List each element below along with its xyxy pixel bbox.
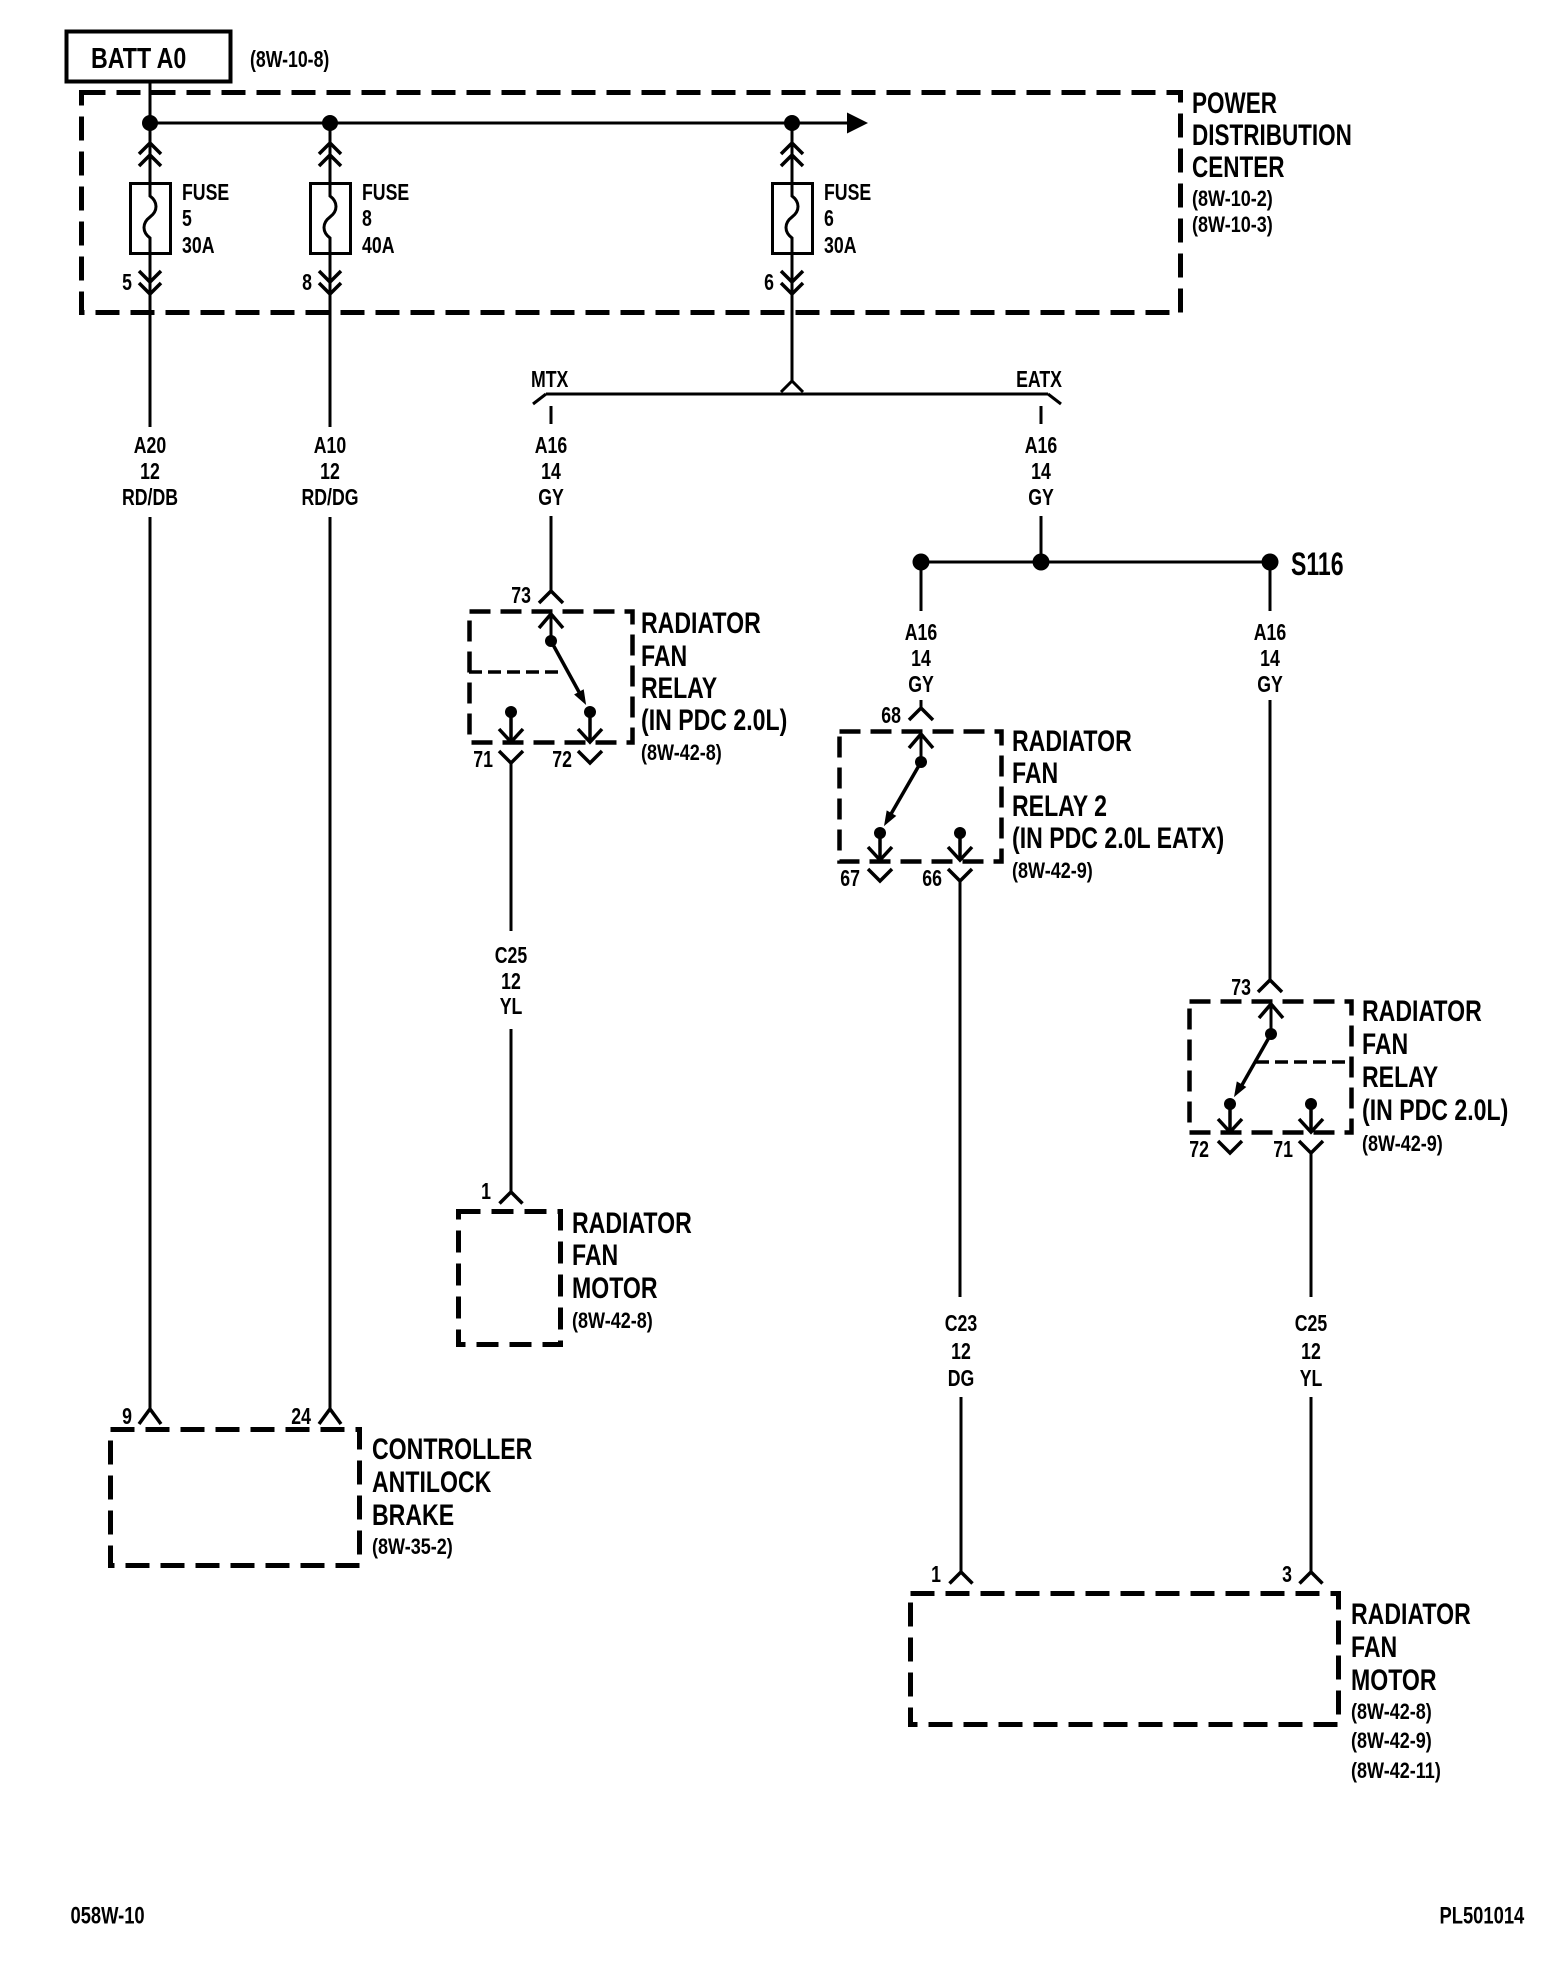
- wire C23 continued: [960, 1397, 963, 1572]
- svg-text:30A: 30A: [182, 233, 215, 259]
- svg-text:FAN: FAN: [572, 1238, 618, 1272]
- svg-text:12: 12: [501, 969, 521, 995]
- svg-text:RADIATOR: RADIATOR: [1362, 994, 1482, 1028]
- svg-text:(8W-42-9): (8W-42-9): [1012, 859, 1093, 883]
- connector pin 3 fan motor 2: [1300, 1572, 1323, 1584]
- svg-text:A10: A10: [314, 433, 346, 459]
- relay 1 contact dot 72: [584, 706, 596, 718]
- radiator fan motor 2 dashed box: [911, 1594, 1339, 1725]
- wire C25 right continued: [1310, 1397, 1313, 1572]
- relay 3 contact dot 71: [1305, 1098, 1317, 1110]
- wire fuse to PDC edge: [329, 253, 332, 313]
- wire fuse 6 down: [791, 313, 794, 381]
- relay 2 contact dot 66: [954, 827, 966, 839]
- connector 67: [868, 869, 892, 881]
- pin 8 connector chevrons: [319, 271, 341, 282]
- contact 71 arrow: [1309, 1104, 1313, 1130]
- pin 6 connector chevrons: [781, 271, 803, 282]
- svg-text:C25: C25: [1295, 1311, 1327, 1337]
- svg-text:GY: GY: [1257, 672, 1283, 698]
- svg-text:14: 14: [541, 459, 561, 485]
- splice dot S116: [1262, 554, 1279, 571]
- svg-text:ANTILOCK: ANTILOCK: [372, 1465, 492, 1499]
- splice S116 bar: [921, 561, 1270, 564]
- svg-text:8: 8: [302, 270, 312, 296]
- svg-text:14: 14: [1031, 459, 1051, 485]
- wire MTX branch: [550, 516, 553, 591]
- svg-text:A16: A16: [535, 433, 567, 459]
- junction dot: [142, 115, 158, 131]
- svg-text:8: 8: [362, 206, 372, 232]
- battery feed box BATT A0: [67, 32, 231, 82]
- fuse 5 element: [144, 184, 156, 253]
- wire C25 from relay 3 pin 71: [1310, 1153, 1313, 1297]
- connector pin 73 relay 1: [539, 591, 563, 603]
- svg-text:POWER: POWER: [1192, 86, 1277, 120]
- bus wire B+: [150, 122, 848, 125]
- svg-text:40A: 40A: [362, 233, 395, 259]
- relay 3 contact dot 72: [1224, 1098, 1236, 1110]
- contact 72 arrow: [1228, 1104, 1232, 1130]
- svg-text:71: 71: [1273, 1137, 1293, 1163]
- svg-text:24: 24: [291, 1404, 311, 1430]
- fuse 6 box: [773, 184, 813, 254]
- svg-text:FAN: FAN: [1362, 1027, 1408, 1061]
- contact 67 arrow: [878, 833, 882, 858]
- svg-text:GY: GY: [908, 672, 934, 698]
- relay 1 contact dot 71: [505, 706, 517, 718]
- connector chevrons: [139, 143, 161, 154]
- svg-text:(8W-10-8): (8W-10-8): [250, 47, 329, 73]
- connector 72: [578, 751, 602, 763]
- svg-text:(IN PDC 2.0L): (IN PDC 2.0L): [641, 703, 787, 737]
- EATX hook: [1048, 394, 1061, 404]
- connector chevrons: [781, 143, 803, 154]
- svg-text:RADIATOR: RADIATOR: [1351, 1597, 1471, 1631]
- svg-text:S116: S116: [1291, 546, 1344, 582]
- radiator fan relay (K3) dashed box: [1190, 1002, 1352, 1133]
- wire A20 continued: [149, 517, 152, 1409]
- svg-text:1: 1: [931, 1562, 941, 1588]
- branch split caret: [781, 381, 803, 392]
- svg-text:5: 5: [182, 206, 192, 232]
- wire to relay 2 continued: [920, 700, 923, 708]
- svg-text:(8W-10-3): (8W-10-3): [1192, 213, 1273, 237]
- connector pin 1 fan motor 2: [950, 1572, 973, 1584]
- connector pin 9: [139, 1409, 161, 1424]
- wire EATX branch: [1040, 516, 1043, 554]
- svg-text:CONTROLLER: CONTROLLER: [372, 1432, 532, 1466]
- svg-text:GY: GY: [1028, 485, 1054, 511]
- svg-text:FUSE: FUSE: [824, 180, 871, 206]
- svg-text:6: 6: [764, 270, 774, 296]
- connector 72: [1218, 1141, 1242, 1153]
- svg-text:(IN PDC 2.0L): (IN PDC 2.0L): [1362, 1093, 1508, 1127]
- svg-text:30A: 30A: [824, 233, 857, 259]
- wire bus to fuse 6: [791, 123, 794, 184]
- svg-text:72: 72: [552, 747, 572, 773]
- controller antilock brake dashed box: [111, 1430, 360, 1566]
- svg-text:C23: C23: [945, 1311, 977, 1337]
- contact 72 arrow: [588, 712, 592, 740]
- svg-text:FUSE: FUSE: [362, 180, 409, 206]
- svg-text:DG: DG: [948, 1366, 975, 1392]
- wire fuse to PDC edge: [149, 253, 152, 313]
- wire to relay 3: [1269, 700, 1272, 980]
- connector pin 68: [909, 708, 933, 720]
- relay 1 input arrow: [539, 614, 563, 628]
- svg-text:(8W-42-9): (8W-42-9): [1362, 1132, 1443, 1156]
- wire bus to fuse 8: [329, 123, 332, 184]
- wire A10 continued: [329, 517, 332, 1409]
- svg-text:3: 3: [1282, 1562, 1292, 1588]
- fuse 8 element: [324, 184, 336, 253]
- wire C25 from relay 1 pin 71: [510, 763, 513, 931]
- splice dot: [913, 554, 930, 571]
- svg-text:FUSE: FUSE: [182, 180, 229, 206]
- svg-text:RD/DB: RD/DB: [122, 485, 178, 511]
- svg-text:14: 14: [911, 646, 931, 672]
- wire bus to fuse 5: [149, 123, 152, 184]
- junction dot: [784, 115, 800, 131]
- svg-text:73: 73: [1231, 975, 1251, 1001]
- svg-text:RD/DG: RD/DG: [301, 485, 358, 511]
- svg-text:72: 72: [1189, 1137, 1209, 1163]
- relay 3 switch arm: [1242, 1034, 1271, 1085]
- relay 3 inner dashed line: [1256, 1060, 1351, 1064]
- pin 5 connector chevrons: [139, 271, 161, 282]
- svg-text:(8W-35-2): (8W-35-2): [372, 1535, 453, 1559]
- wire C25 continued: [510, 1029, 513, 1192]
- svg-text:C25: C25: [495, 943, 527, 969]
- svg-text:9: 9: [122, 1404, 132, 1430]
- MTX hook: [533, 394, 546, 404]
- radiator fan relay (K1) dashed box: [470, 612, 633, 743]
- svg-text:CENTER: CENTER: [1192, 150, 1284, 184]
- svg-text:5: 5: [122, 270, 132, 296]
- svg-text:A16: A16: [1254, 620, 1286, 646]
- svg-text:(8W-10-2): (8W-10-2): [1192, 187, 1273, 211]
- svg-text:GY: GY: [538, 485, 564, 511]
- svg-text:68: 68: [881, 703, 901, 729]
- svg-text:(8W-42-11): (8W-42-11): [1351, 1759, 1441, 1783]
- radiator fan motor dashed box: [459, 1212, 561, 1345]
- svg-text:RADIATOR: RADIATOR: [641, 606, 761, 640]
- wire A10: [329, 313, 332, 427]
- svg-text:1: 1: [481, 1179, 491, 1205]
- wire A20: [149, 313, 152, 427]
- svg-text:MOTOR: MOTOR: [572, 1271, 658, 1305]
- connector 71: [499, 751, 523, 763]
- svg-text:73: 73: [511, 583, 531, 609]
- svg-text:058W-10: 058W-10: [71, 1901, 145, 1929]
- svg-text:YL: YL: [1300, 1366, 1323, 1392]
- svg-text:FAN: FAN: [641, 639, 687, 673]
- svg-text:MTX: MTX: [531, 367, 569, 393]
- svg-text:6: 6: [824, 206, 834, 232]
- EATX tick: [1040, 406, 1043, 424]
- wire to relay 2: [920, 570, 923, 611]
- contact 66 arrow: [958, 833, 962, 858]
- splice dot: [1033, 554, 1050, 571]
- relay 3 pivot dot: [1265, 1028, 1277, 1040]
- relay 2 contact dot 67: [874, 827, 886, 839]
- svg-text:12: 12: [140, 459, 160, 485]
- svg-text:66: 66: [922, 866, 942, 892]
- svg-text:PL501014: PL501014: [1440, 1901, 1525, 1929]
- svg-text:A20: A20: [134, 433, 166, 459]
- relay 1 switch arm: [551, 641, 579, 692]
- connector pin 73 relay 3: [1258, 980, 1282, 992]
- bus arrowhead: [847, 113, 868, 134]
- wire S116 down: [1269, 570, 1272, 611]
- relay 3 input arrow: [1259, 1004, 1283, 1018]
- branch wire MTX-EATX: [546, 393, 1048, 396]
- relay 2 switch arm: [891, 762, 921, 814]
- connector pin 24: [319, 1409, 341, 1424]
- MTX tick: [550, 406, 553, 424]
- svg-text:12: 12: [320, 459, 340, 485]
- relay 2 input arrow: [909, 734, 933, 748]
- fuse 8 box: [311, 184, 351, 254]
- radiator fan relay 2 dashed box: [840, 732, 1002, 862]
- svg-text:14: 14: [1260, 646, 1280, 672]
- svg-text:12: 12: [951, 1339, 971, 1365]
- svg-text:(IN PDC 2.0L EATX): (IN PDC 2.0L EATX): [1012, 821, 1224, 855]
- relay 1 pivot dot: [545, 635, 557, 647]
- connector 66: [948, 869, 972, 881]
- svg-text:A16: A16: [1025, 433, 1057, 459]
- svg-text:12: 12: [1301, 1339, 1321, 1365]
- svg-text:71: 71: [473, 747, 493, 773]
- svg-text:DISTRIBUTION: DISTRIBUTION: [1192, 118, 1352, 152]
- svg-text:(8W-42-8): (8W-42-8): [572, 1309, 653, 1333]
- svg-text:BATT A0: BATT A0: [91, 41, 186, 74]
- svg-text:(8W-42-9): (8W-42-9): [1351, 1729, 1432, 1753]
- relay 2 pivot dot: [915, 756, 927, 768]
- svg-text:(8W-42-8): (8W-42-8): [641, 741, 722, 765]
- wire C23 from relay 2 pin 66: [959, 881, 962, 1297]
- svg-text:EATX: EATX: [1016, 367, 1062, 393]
- svg-text:(8W-42-8): (8W-42-8): [1351, 1700, 1432, 1724]
- svg-text:MOTOR: MOTOR: [1351, 1663, 1437, 1697]
- svg-text:A16: A16: [905, 620, 937, 646]
- svg-text:FAN: FAN: [1351, 1630, 1397, 1664]
- svg-text:RADIATOR: RADIATOR: [1012, 724, 1132, 758]
- power distribution center dashed box: [82, 93, 1181, 313]
- connector 71: [1299, 1141, 1323, 1153]
- fuse 6 element: [786, 184, 798, 253]
- relay 1 inner dashed line: [469, 670, 562, 674]
- contact 71 arrow: [509, 712, 513, 740]
- wire fuse to PDC edge: [791, 253, 794, 313]
- svg-text:BRAKE: BRAKE: [372, 1498, 454, 1532]
- fuse 5 box: [131, 184, 171, 254]
- svg-text:RELAY: RELAY: [1362, 1060, 1438, 1094]
- connector chevrons: [319, 143, 341, 154]
- junction dot: [322, 115, 338, 131]
- svg-text:RELAY 2: RELAY 2: [1012, 789, 1107, 823]
- svg-text:FAN: FAN: [1012, 756, 1058, 790]
- svg-text:67: 67: [840, 866, 860, 892]
- svg-text:RELAY: RELAY: [641, 671, 717, 705]
- svg-text:YL: YL: [500, 994, 523, 1020]
- connector pin 1 fan motor: [500, 1192, 523, 1204]
- svg-text:RADIATOR: RADIATOR: [572, 1206, 692, 1240]
- wire BATT A0 to bus: [149, 81, 152, 123]
